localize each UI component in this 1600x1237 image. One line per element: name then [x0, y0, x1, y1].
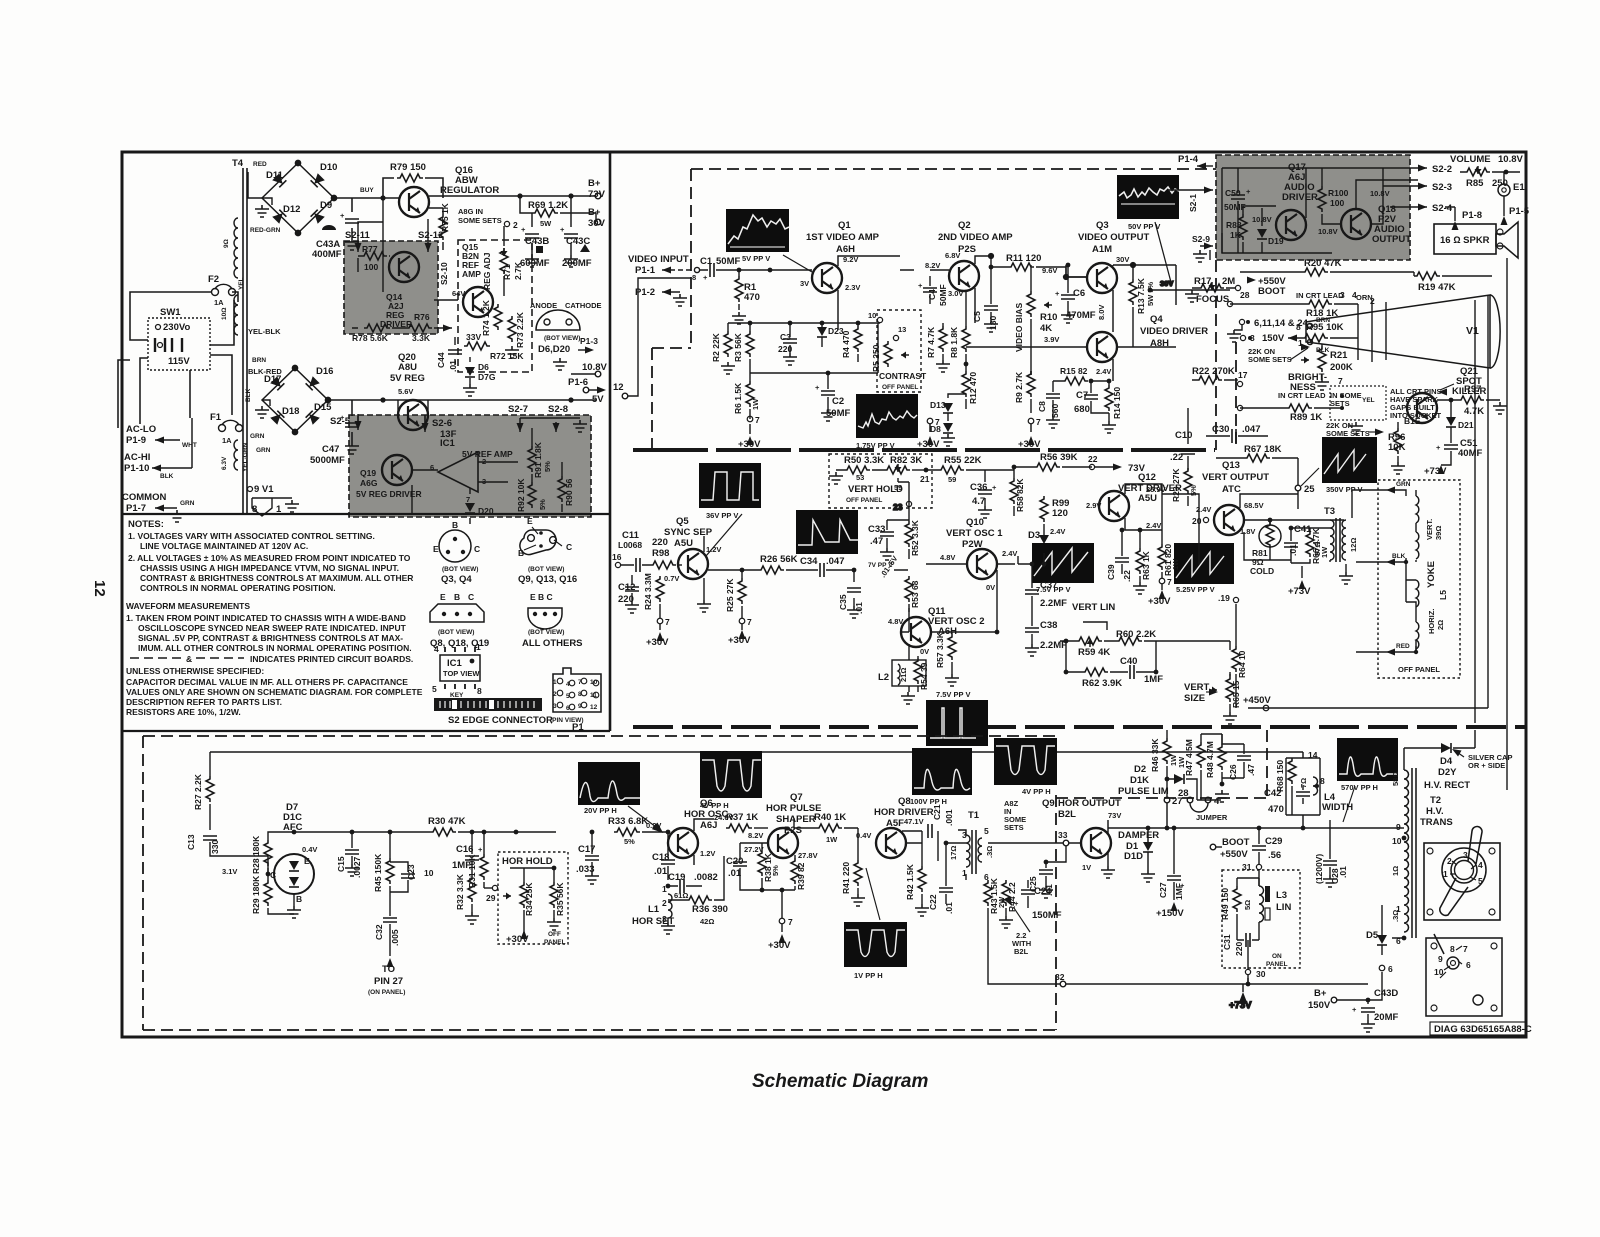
outer schematic border frame: [122, 152, 1526, 1037]
resistor R14 150: [1102, 381, 1122, 433]
PCB gray fill Q14: [344, 241, 438, 334]
svg-text:+: +: [1352, 1005, 1357, 1014]
svg-text:.19: .19: [1218, 593, 1230, 603]
capacitor C26 .47: [1201, 734, 1256, 802]
wire RED label: [250, 161, 281, 234]
wire Q7 emitter bias: [740, 843, 795, 951]
svg-text:D5: D5: [1366, 930, 1379, 941]
svg-text:4K: 4K: [1040, 323, 1052, 334]
svg-text:R34 25K: R34 25K: [524, 882, 534, 916]
resistor R68 150: [1275, 758, 1320, 815]
svg-text:2: 2: [1447, 856, 1452, 866]
svg-text:330: 330: [210, 840, 220, 854]
waveform photo 100V PP H: [910, 748, 972, 806]
svg-text:73V: 73V: [1108, 811, 1121, 820]
svg-text:S2-7: S2-7: [508, 404, 528, 415]
resistor R49 150: [1220, 878, 1259, 936]
resistor R46 33K: [1150, 730, 1178, 797]
svg-text:.01: .01: [448, 360, 458, 372]
resistor R90 56: [558, 476, 574, 506]
label 9 V1 heater: [242, 442, 299, 516]
P1 connector pin view: [550, 668, 601, 733]
damper diode D1: [1118, 826, 1159, 882]
waveform photo 7V PP V: [796, 510, 893, 569]
svg-text:C32: C32: [374, 924, 384, 940]
terminal P1-6 5V: [568, 377, 606, 405]
svg-text:C: C: [270, 870, 276, 880]
transistor Q17: [1252, 162, 1318, 240]
svg-text:S2 EDGE CONNECTOR: S2 EDGE CONNECTOR: [448, 715, 553, 726]
svg-text:5.6V: 5.6V: [398, 387, 413, 396]
svg-text:2.4V: 2.4V: [1050, 527, 1065, 536]
svg-text:12: 12: [590, 704, 598, 711]
svg-text:6: 6: [566, 705, 570, 712]
svg-text:A5U: A5U: [1138, 493, 1157, 504]
svg-text:R67 18K: R67 18K: [1244, 444, 1282, 455]
coil L4 width: [1299, 750, 1353, 813]
capacitor C25 .01: [1028, 846, 1066, 898]
svg-text:C2: C2: [832, 396, 844, 407]
svg-text:1V PP H: 1V PP H: [854, 971, 883, 980]
transistor Q8 hor driver: [856, 796, 934, 858]
svg-text:P1-1: P1-1: [635, 265, 656, 276]
svg-text:R63 1K: R63 1K: [1141, 550, 1151, 580]
svg-text:D20: D20: [478, 506, 494, 516]
transistor Q20: [390, 352, 428, 430]
svg-text:2.4V: 2.4V: [1096, 367, 1111, 376]
svg-text:12: 12: [91, 580, 108, 597]
capacitor C39 .22: [1106, 548, 1132, 582]
svg-text:470: 470: [744, 292, 760, 303]
svg-text:L5: L5: [1438, 590, 1448, 600]
edge connector S2-11: [345, 222, 383, 252]
svg-text:R23 27K: R23 27K: [1171, 468, 1181, 502]
long vertical wire right 1: [1474, 300, 1476, 723]
wire hor out bus: [1162, 752, 1402, 830]
resistor R91 1.8K: [528, 441, 552, 478]
svg-text:+30V: +30V: [917, 439, 940, 450]
svg-text:RED: RED: [253, 161, 267, 168]
resistor R37 1K: [726, 812, 768, 832]
transformer T1: [949, 810, 994, 882]
svg-text:D6,D20: D6,D20: [538, 344, 570, 355]
yoke connector GRN: [1352, 481, 1411, 518]
wire Q3 collector: [1064, 263, 1176, 332]
svg-text:+73V: +73V: [1424, 466, 1447, 477]
svg-text:400MF: 400MF: [312, 249, 342, 260]
resistor R76 3.3K: [406, 312, 432, 343]
svg-text:R31 10K: R31 10K: [467, 854, 477, 888]
svg-text:C29: C29: [1265, 836, 1282, 847]
svg-text:2Ω: 2Ω: [1436, 620, 1445, 630]
T3 vert output transformer: [1313, 506, 1358, 584]
svg-text:R79 150: R79 150: [390, 162, 426, 173]
svg-text:1MF: 1MF: [1144, 674, 1163, 685]
svg-text:HORIZ.: HORIZ.: [1427, 609, 1436, 634]
svg-text:P1-10: P1-10: [124, 463, 149, 474]
svg-text:10.8V: 10.8V: [1370, 189, 1390, 198]
svg-text:.01: .01: [654, 866, 668, 877]
resistor R3 56K: [733, 321, 754, 373]
terminal 32: [988, 916, 1126, 987]
svg-text:C38: C38: [1040, 620, 1057, 631]
svg-text:E B C: E B C: [530, 592, 553, 602]
svg-text:.22: .22: [1122, 570, 1132, 582]
notes text block: [126, 519, 423, 717]
hor hold dotted box: [498, 852, 568, 944]
svg-text:+73V: +73V: [1229, 1000, 1252, 1011]
svg-text:1. TAKEN FROM POINT INDICATED: 1. TAKEN FROM POINT INDICATED TO CHASSIS…: [126, 613, 406, 623]
svg-text:D2: D2: [1134, 764, 1146, 775]
svg-text:C18: C18: [652, 852, 669, 863]
svg-text:42Ω: 42Ω: [700, 917, 714, 926]
capacitor C12 220: [618, 575, 639, 613]
svg-text:DAMPER: DAMPER: [1118, 830, 1159, 841]
svg-text:R50 3.3K: R50 3.3K: [844, 455, 884, 466]
svg-text:R20 47K: R20 47K: [1304, 258, 1342, 269]
resistor R72 15K: [464, 332, 524, 361]
label BRN: [250, 357, 266, 440]
+30V arrow 3: [1018, 417, 1041, 450]
svg-text:BUY: BUY: [360, 187, 374, 194]
svg-text:YOKE: YOKE: [1426, 561, 1437, 588]
svg-text:C: C: [468, 592, 474, 602]
svg-text:GRN: GRN: [250, 433, 265, 440]
svg-text:Q13: Q13: [1222, 460, 1240, 471]
node BUY: [360, 187, 386, 201]
svg-text:B+: B+: [588, 178, 601, 189]
svg-text:10: 10: [590, 679, 598, 686]
svg-text:C5: C5: [972, 311, 982, 322]
edge connector S2-7: [508, 404, 580, 432]
svg-text:T4: T4: [232, 158, 244, 169]
svg-text:C44: C44: [436, 352, 446, 368]
transistor Q12 vert driver: [1086, 472, 1182, 521]
svg-text:TO: TO: [382, 964, 395, 975]
svg-text:COLD: COLD: [1250, 566, 1274, 576]
svg-text:7: 7: [1036, 417, 1041, 427]
transistor Q15: [452, 242, 493, 317]
svg-text:+: +: [1055, 289, 1060, 298]
pinout Q8 Q18 Q19: [430, 592, 489, 649]
svg-text:8: 8: [252, 504, 257, 515]
resistor R12 470: [962, 362, 978, 405]
svg-text:C33: C33: [868, 524, 885, 535]
capacitor C43C 200MF: [560, 196, 592, 269]
svg-text:4.8V: 4.8V: [888, 617, 903, 626]
wire Q12 emitter network: [1120, 484, 1199, 564]
resistor R63 1K: [1133, 548, 1151, 594]
svg-text:BRN: BRN: [252, 357, 266, 364]
svg-text:0.2V: 0.2V: [646, 821, 661, 830]
PCB gray area audio: [1216, 155, 1410, 260]
waveform photo 4V PP H right: [994, 738, 1057, 796]
svg-text:5: 5: [432, 684, 437, 694]
svg-text:P1-7: P1-7: [126, 503, 146, 514]
svg-text:29: 29: [486, 893, 496, 903]
svg-text:CATHODE: CATHODE: [565, 301, 602, 310]
svg-text:5Ω: 5Ω: [1243, 900, 1252, 910]
svg-text:(BOT VIEW): (BOT VIEW): [438, 629, 474, 636]
svg-text:7: 7: [1338, 376, 1343, 386]
resistor R100 100: [1318, 186, 1349, 212]
yoke horiz winding: [1416, 580, 1445, 649]
pinout Q9 Q13 Q16: [518, 516, 577, 585]
svg-text:R53 68: R53 68: [910, 580, 920, 608]
resistor R54 39: [901, 658, 929, 704]
svg-text:R4 470: R4 470: [841, 330, 851, 358]
svg-text:50MF: 50MF: [716, 256, 740, 267]
yoke internal wires: [1406, 490, 1416, 652]
svg-text:CAPACITOR DECIMAL VALUE IN MF.: CAPACITOR DECIMAL VALUE IN MF. ALL OTHER…: [126, 677, 408, 687]
svg-text:Q10: Q10: [966, 517, 984, 528]
svg-text:OFF PANEL: OFF PANEL: [846, 497, 882, 504]
svg-text:10: 10: [868, 311, 876, 320]
svg-text:1W: 1W: [826, 835, 838, 844]
resistor R79 150: [383, 162, 443, 198]
opamp IC1 5V REF AMP: [430, 429, 513, 504]
wire pointer wave2: [1155, 222, 1172, 286]
svg-text:Q8: Q8: [898, 796, 911, 807]
svg-text:5: 5: [1478, 876, 1483, 886]
wires power supply internal: [352, 198, 562, 524]
diode D21: [1446, 400, 1474, 435]
svg-text:SETS: SETS: [1330, 399, 1350, 408]
svg-text:A6G: A6G: [360, 478, 378, 488]
capacitor C51 40MF: [1424, 435, 1482, 477]
svg-text:ANODE: ANODE: [530, 301, 557, 310]
bridge rectifier D15-D18: [262, 365, 352, 434]
volume pot R85: [1450, 154, 1523, 189]
svg-text:5V REF AMP: 5V REF AMP: [462, 449, 513, 459]
svg-text:C17: C17: [578, 844, 595, 855]
spark gap note box: [1330, 376, 1442, 434]
svg-text:C40: C40: [1120, 656, 1137, 667]
svg-text:+450V: +450V: [1243, 695, 1271, 706]
svg-text:Q9, Q13, Q16: Q9, Q13, Q16: [518, 574, 577, 585]
svg-text:C3: C3: [780, 332, 791, 342]
svg-text:OFF PANEL: OFF PANEL: [882, 384, 918, 391]
svg-text:INTO SOCKET: INTO SOCKET: [1390, 411, 1442, 420]
svg-text:C: C: [474, 544, 480, 554]
svg-text:1.2V: 1.2V: [700, 849, 715, 858]
svg-text:C7: C7: [1076, 390, 1088, 401]
svg-text:.001: .001: [944, 809, 954, 826]
svg-text:BLK: BLK: [160, 473, 174, 480]
svg-text:4: 4: [566, 681, 570, 688]
svg-text:7Ω: 7Ω: [1299, 778, 1308, 788]
B+ 73V terminal: [588, 178, 606, 200]
svg-text:PANEL: PANEL: [544, 939, 566, 946]
svg-text:BOOT: BOOT: [1222, 837, 1250, 848]
svg-text:R91 1.8K: R91 1.8K: [533, 441, 543, 478]
resistor R39 82: [791, 855, 806, 890]
terminal COMMON P1-7: [122, 492, 195, 522]
svg-text:SETS: SETS: [1004, 823, 1024, 832]
svg-text:4V PP H: 4V PP H: [1022, 787, 1051, 796]
B+ 150V C43D: [1308, 940, 1398, 1032]
svg-text:SIZE: SIZE: [1184, 693, 1205, 704]
svg-text:CONTROLS IN NORMAL OPERATING P: CONTROLS IN NORMAL OPERATING POSITION.: [140, 583, 336, 593]
ON PANEL dotted box L3: [1222, 870, 1300, 968]
svg-text:150V: 150V: [1262, 333, 1285, 344]
T4 secondary winding 10ohm: [221, 295, 238, 335]
svg-text:COMMON: COMMON: [122, 492, 166, 503]
svg-text:F2: F2: [208, 274, 219, 285]
coil L3 LIN: [1243, 886, 1291, 936]
resistor R20 47K: [1240, 258, 1414, 276]
svg-text:10: 10: [424, 868, 434, 878]
capacitor C7 680: [1074, 379, 1109, 415]
svg-text:TRANS: TRANS: [1420, 817, 1453, 828]
capacitor C6 470MF: [1055, 263, 1096, 323]
svg-text:R36 390: R36 390: [692, 904, 728, 915]
waveform photo 5.25V PP V: [1174, 543, 1234, 594]
svg-text:R42 1.5K: R42 1.5K: [905, 863, 915, 900]
svg-text:R69 1.2K: R69 1.2K: [528, 200, 568, 211]
resistor R40 1K: [794, 812, 858, 844]
svg-text:R5 250: R5 250: [871, 344, 881, 372]
svg-text:KEY: KEY: [450, 692, 464, 699]
diode D10: [311, 162, 338, 187]
svg-text:R25 27K: R25 27K: [725, 578, 735, 612]
svg-text:7: 7: [755, 415, 760, 425]
resistor R48 4.7M: [1205, 734, 1226, 786]
svg-text:+550V: +550V: [1220, 849, 1248, 860]
svg-text:VERT LIN: VERT LIN: [1072, 602, 1115, 613]
svg-text:5%: 5%: [538, 499, 547, 510]
svg-text:4.7K: 4.7K: [1464, 406, 1484, 417]
svg-text:17Ω: 17Ω: [949, 846, 958, 860]
svg-text:C34: C34: [800, 556, 818, 567]
svg-text:C: C: [566, 542, 572, 552]
svg-text:VERT OUTPUT: VERT OUTPUT: [1202, 472, 1269, 483]
svg-text:+30V: +30V: [768, 940, 791, 951]
capacitor C30 .047: [1206, 424, 1268, 443]
capacitor C38 2.2MF: [1025, 610, 1067, 656]
PCB dashed border video board top: [691, 168, 1216, 170]
transistor Q13 vert output: [1192, 460, 1269, 536]
svg-text:.01: .01: [1288, 544, 1298, 556]
svg-text:D6: D6: [478, 362, 489, 372]
svg-text:AMP: AMP: [462, 269, 481, 279]
svg-text:SYNC SEP: SYNC SEP: [664, 527, 713, 538]
diode D15: [306, 402, 333, 425]
svg-text:RED: RED: [1396, 643, 1410, 650]
resistor R44 2.2: [999, 880, 1017, 928]
capacitor C36 4.7: [970, 470, 997, 518]
svg-text:B2L: B2L: [1058, 809, 1076, 820]
capacitor C8 560: [1037, 381, 1060, 428]
svg-text:C13: C13: [186, 834, 196, 850]
HV socket plate: [1426, 934, 1502, 1016]
svg-text:R32 3.3K: R32 3.3K: [455, 873, 465, 910]
svg-text:T1: T1: [968, 810, 980, 821]
svg-text:R6 1.5K: R6 1.5K: [733, 382, 743, 414]
capacitor C15 .0027: [336, 832, 362, 878]
label 22K on some sets 2: [1326, 421, 1384, 438]
wire Q6 collector out: [694, 819, 714, 865]
svg-text:220: 220: [652, 537, 668, 548]
PCB gray fill audio: [1216, 155, 1410, 260]
svg-text:R54 39: R54 39: [919, 662, 929, 690]
svg-text:2. ALL VOLTAGES ± 10% AS MEAS: 2. ALL VOLTAGES ± 10% AS MEASURED FROM P…: [128, 553, 411, 563]
svg-text:1ST VIDEO AMP: 1ST VIDEO AMP: [806, 232, 880, 243]
transistor Q7 hor pulse shaper: [744, 792, 821, 860]
svg-text:S2-2: S2-2: [1432, 164, 1452, 175]
svg-text:68.5V: 68.5V: [1244, 501, 1264, 510]
CRT V1: [1306, 295, 1500, 368]
svg-text:D16: D16: [316, 366, 333, 377]
resistor R29 180K: [238, 856, 294, 914]
svg-text:1.8V: 1.8V: [1240, 527, 1255, 536]
transistor Q19: [356, 455, 422, 499]
resistor R69 1.2K: [520, 196, 596, 228]
svg-text:59: 59: [894, 483, 902, 492]
resistor R62 3.9K: [1064, 639, 1124, 689]
svg-text:CONTRAST: CONTRAST: [879, 371, 927, 381]
edge connector S2-1: [1168, 154, 1213, 212]
diode D19: [1257, 229, 1284, 246]
resistor R2 22K: [711, 323, 735, 374]
svg-text:5W: 5W: [540, 219, 552, 228]
svg-text:10: 10: [1392, 836, 1402, 846]
svg-text:+: +: [815, 383, 820, 392]
svg-text:4.8V: 4.8V: [940, 553, 955, 562]
svg-text:10.8V: 10.8V: [582, 362, 607, 373]
resistor R8 1.8K: [949, 291, 970, 364]
pot REG ADJ R71: [482, 220, 523, 296]
svg-text:SOME SETS: SOME SETS: [1326, 429, 1370, 438]
label DIAG number: [1430, 1022, 1532, 1035]
resistor R19 47K: [1414, 272, 1492, 293]
svg-text:DIAG 63D65165A88-C: DIAG 63D65165A88-C: [1434, 1024, 1532, 1035]
svg-text:C10: C10: [1175, 430, 1192, 441]
svg-text:4.7: 4.7: [972, 496, 985, 507]
svg-text:1A: 1A: [222, 436, 232, 445]
svg-text:C27: C27: [1158, 882, 1168, 898]
svg-text:B: B: [452, 520, 458, 530]
waveform photo 350V PP V: [1322, 437, 1377, 494]
resistor R95 10K: [1240, 322, 1358, 344]
capacitor C23 10: [390, 862, 434, 892]
svg-text:R24 3.3M: R24 3.3M: [643, 573, 653, 610]
wire to Q20: [352, 397, 596, 402]
T2 HV transformer winding: [1391, 768, 1453, 946]
svg-text:B+: B+: [1314, 988, 1327, 999]
resistor R35 56K: [544, 866, 566, 946]
wire bridge to Q16: [352, 197, 399, 199]
resistor R11 120: [991, 253, 1087, 277]
resistor R38 1K: [758, 843, 780, 890]
diode D5: [1366, 905, 1393, 974]
svg-text:570V PP H: 570V PP H: [1341, 783, 1378, 792]
resistor R61 820: [1148, 544, 1180, 607]
svg-text:HOR HOLD: HOR HOLD: [502, 856, 553, 867]
edge connector S2-3: [1383, 182, 1452, 193]
svg-text:8: 8: [1450, 944, 1455, 954]
svg-text:2.7K: 2.7K: [513, 261, 523, 280]
svg-text:CONTRAST & BRIGHTNESS CONTROLS: CONTRAST & BRIGHTNESS CONTROLS AT MAXIMU…: [140, 573, 413, 583]
svg-text:D4: D4: [1440, 756, 1453, 767]
svg-text:1: 1: [553, 679, 557, 686]
svg-text:R40 1K: R40 1K: [814, 812, 846, 823]
svg-text:R30 47K: R30 47K: [428, 816, 466, 827]
switch SW1: [148, 307, 210, 370]
svg-text:BLK: BLK: [1392, 553, 1406, 560]
svg-text:VOLUME: VOLUME: [1450, 154, 1491, 165]
pot R82 3K: [884, 455, 930, 492]
